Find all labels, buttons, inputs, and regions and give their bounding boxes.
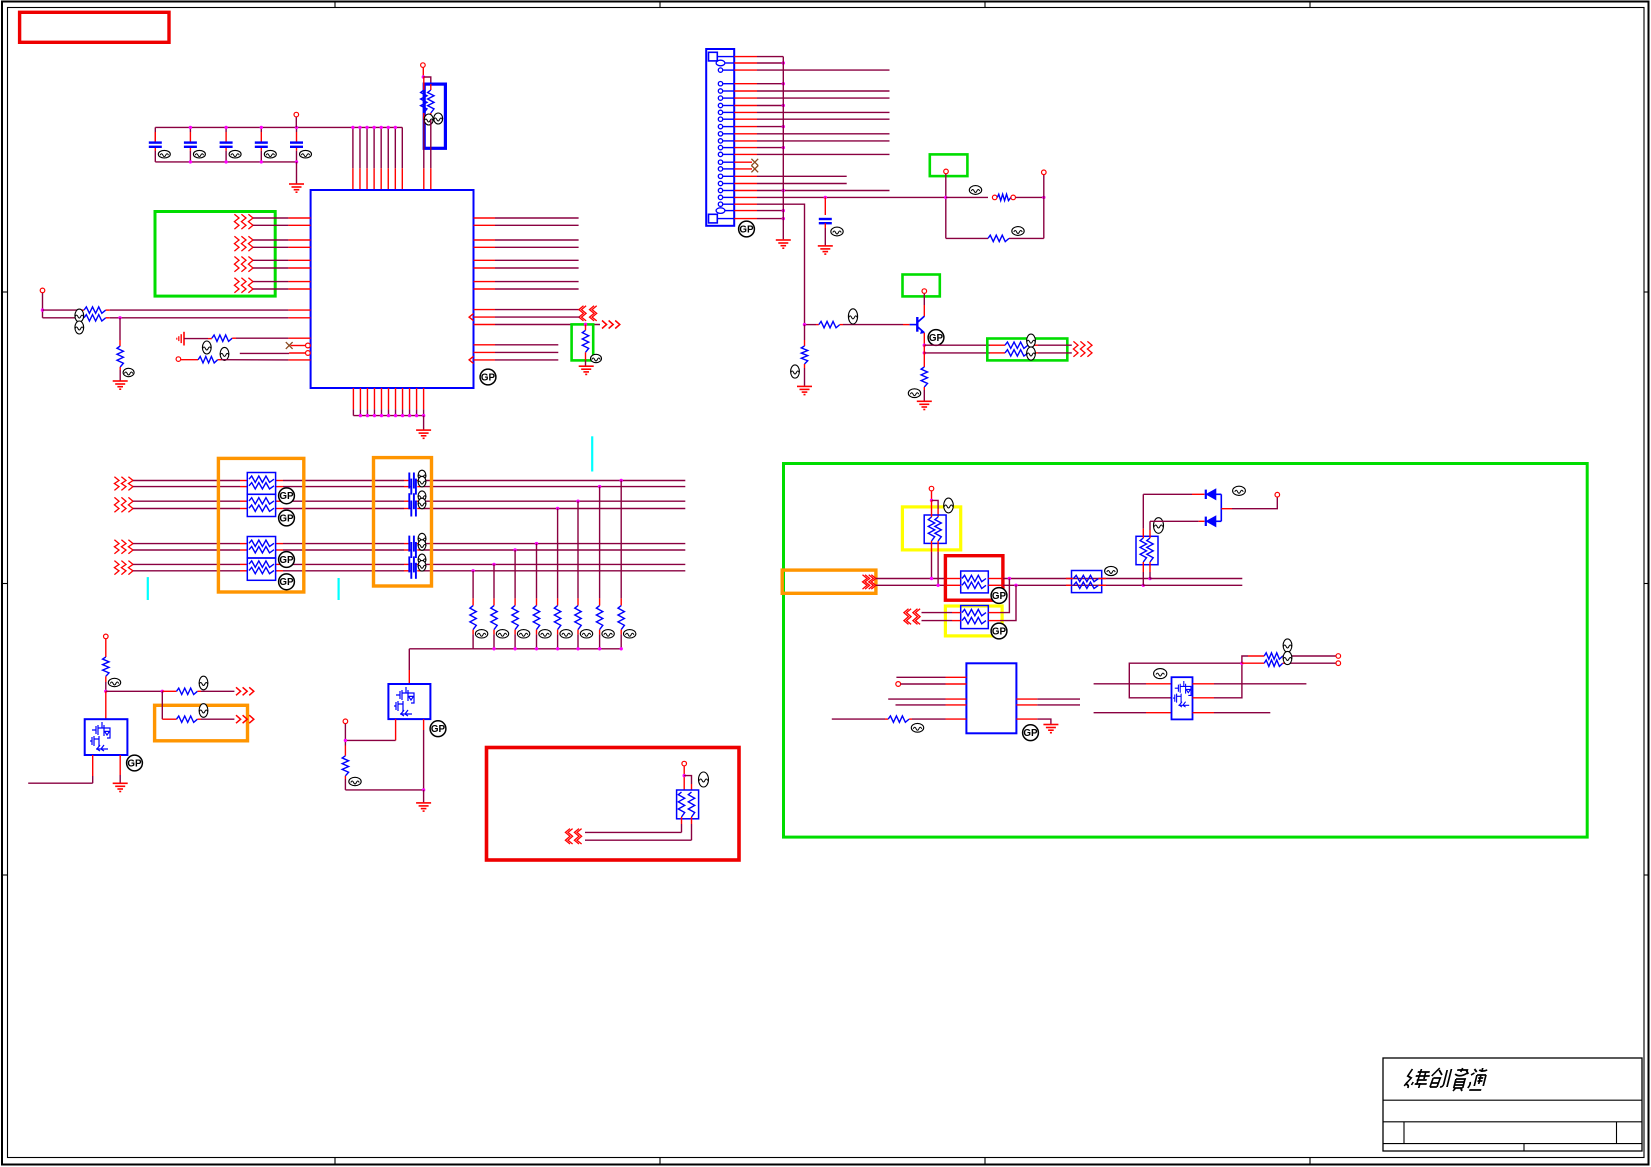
- cap bank bottom rail wire: [154, 127, 156, 142]
- capacitor CS8: [411, 563, 416, 579]
- net arrows DP pair: [582, 306, 587, 321]
- wire left input upper: [43, 309, 81, 311]
- stamp GP U2: [1023, 725, 1039, 741]
- ground G2: [585, 360, 587, 365]
- wire left input lower: [43, 317, 81, 319]
- resistor ladder R8: [472, 571, 474, 599]
- zone tick top 3: [984, 2, 986, 8]
- U1 right bus wires upper: [474, 217, 496, 219]
- junction dot Y1: [930, 499, 933, 502]
- power callout yellow box Y1: [902, 507, 960, 550]
- wire RP9a to net1: [988, 612, 1000, 614]
- offpage arrows Q1a: [236, 687, 241, 695]
- bus input net symbols pair4: [114, 561, 119, 575]
- wire U2 pin L4: [946, 704, 967, 706]
- connector J1 pin 9: [718, 117, 722, 121]
- power callout green box G3: [930, 154, 968, 176]
- net symbols group 1 in G1: [234, 214, 239, 229]
- IC U2: [966, 663, 1016, 733]
- resistor R-G2: [585, 325, 587, 331]
- resistor R-Q3a: [990, 344, 1005, 346]
- connector J1 pin 16: [718, 167, 722, 171]
- capacitor CS5: [409, 536, 414, 552]
- connector J1 pin 15: [718, 160, 722, 164]
- riser B wire: [1149, 521, 1151, 530]
- connector J1 pin 3: [718, 68, 722, 72]
- capacitor CS6: [411, 542, 416, 558]
- offpage callout orange box O3: [155, 705, 248, 741]
- junction dot pulldown left: [118, 316, 121, 319]
- zone tick left 2: [2, 583, 8, 585]
- svg-text:GP: GP: [481, 372, 496, 383]
- junction dot RP1: [422, 75, 425, 78]
- stamp GP RP2: [279, 488, 295, 504]
- resistor RP9b: [962, 617, 986, 623]
- label CS5: [418, 533, 426, 544]
- stamp GP Q3: [928, 330, 944, 346]
- power terminal G3: [944, 169, 949, 174]
- wire net2 tail: [1143, 584, 1242, 586]
- terminal R-J9b: [1336, 661, 1341, 666]
- resistor ladder R7: [493, 564, 495, 598]
- wire RP9b to net2: [988, 620, 1000, 622]
- resistor R-Q1a: [162, 690, 176, 692]
- resistor R-Q3b: [990, 352, 1005, 354]
- wire diode cathode bus: [1220, 494, 1222, 521]
- label CS8: [418, 561, 426, 572]
- wire U1 pin out with offpage: [474, 324, 496, 326]
- junction dot Q3 e2: [923, 351, 926, 354]
- ground U1 bottom: [423, 416, 425, 430]
- resistor RP10a: [1072, 578, 1074, 580]
- junction dot Q1 node: [104, 690, 107, 693]
- wire U2 pin R1: [1016, 698, 1037, 700]
- ground Q3: [917, 401, 932, 409]
- junction dot RP7b: [936, 584, 939, 587]
- junction dot ladder 2: [598, 485, 601, 488]
- resistor RP8b on net2: [945, 584, 960, 586]
- resistor R-J9a: [1242, 656, 1248, 663]
- resistor ladder R1: [620, 481, 622, 599]
- cyan marker 1: [591, 436, 593, 471]
- capacitor C2: [189, 127, 191, 132]
- transistor Q3 npn: [917, 316, 924, 334]
- junction dot RB2: [683, 774, 686, 777]
- stamp GP Q1: [127, 755, 143, 771]
- resistor pack RP5: [247, 558, 275, 580]
- capacitor C1: [154, 132, 156, 142]
- label ladder R7: [496, 630, 508, 638]
- resistor pack RP1 box: [424, 84, 445, 148]
- resistor RP1b: [430, 84, 432, 90]
- ground rail wire U1 bottom: [353, 415, 423, 417]
- label R-Q3base: [848, 309, 857, 324]
- stamp GP U1: [480, 369, 496, 385]
- wire J9 pin L1: [1094, 683, 1146, 685]
- connector J1 bus wire: [782, 57, 784, 240]
- label R-U2: [911, 723, 923, 732]
- label CS2: [418, 476, 426, 487]
- svg-text:GP: GP: [992, 626, 1007, 637]
- label R-Q3pulldown: [908, 389, 920, 398]
- wire Q1 drain lead: [119, 755, 121, 775]
- terminal diode out: [1275, 492, 1280, 497]
- zone tick top 2: [659, 2, 661, 8]
- wire rail to Q2: [408, 649, 410, 670]
- connector J1 pin 12: [718, 139, 722, 143]
- ground C-J1: [818, 246, 833, 254]
- ground J1 bus: [776, 240, 791, 248]
- junction dot Q3 e1: [923, 344, 926, 347]
- zone tick left 1: [2, 291, 8, 293]
- junction dot Q3 base net: [803, 323, 806, 326]
- resistor ladder R3: [577, 501, 579, 598]
- junction dot G3: [944, 196, 947, 199]
- capacitor C4: [260, 127, 262, 132]
- zone tick top 1: [334, 2, 336, 8]
- resistor R-Q3pulldown: [923, 353, 925, 367]
- wire net2 from O4: [876, 584, 946, 586]
- junction dot riserA: [1148, 577, 1151, 580]
- junction dot pulldown: [584, 323, 587, 326]
- resistor R-L3 to ground: [119, 318, 121, 340]
- function callout big green box G6: [784, 464, 1588, 838]
- label R-Q3net: [791, 365, 800, 378]
- wire Q3 out2: [923, 345, 925, 353]
- ground Q2: [423, 790, 425, 803]
- power flag symbol: [177, 332, 184, 346]
- connector J9 body: [1172, 677, 1193, 719]
- capacitor C-J1: [824, 197, 826, 215]
- capacitor CS2: [411, 479, 416, 495]
- label ladder R2: [602, 630, 614, 638]
- resistor pack RP9 box: [961, 606, 989, 629]
- terminal loop right: [1043, 175, 1045, 197]
- resistor R-Q3net pulldown: [804, 325, 806, 340]
- resistor ladder R5: [536, 544, 538, 599]
- power terminal Q1: [104, 634, 109, 639]
- resistor pack RP7 box: [924, 515, 946, 543]
- revision callout red box: [20, 12, 169, 42]
- wire Q1 source lead: [92, 755, 94, 776]
- connector J1 pin 6: [718, 96, 722, 100]
- terminal R-J9a: [1336, 654, 1341, 659]
- label D1: [1233, 486, 1246, 495]
- label R-L3: [123, 368, 134, 376]
- resistor R-U2 pin L5: [832, 718, 885, 720]
- power terminal VCC cap bank: [294, 112, 299, 117]
- series caps callout orange box O2: [374, 458, 432, 586]
- wire Q1 node: [106, 690, 163, 692]
- title block row line 3: [1383, 1143, 1642, 1145]
- label Y1 pack: [944, 498, 954, 513]
- capacitor CS4: [411, 501, 416, 517]
- wire Q1 node2 down: [161, 691, 163, 719]
- connector J1 pin 10: [718, 124, 722, 128]
- connector J1 pin 5: [718, 89, 722, 93]
- resistor RP11a: [1140, 538, 1146, 562]
- label R-Q1 pullup: [108, 678, 120, 686]
- wire Q3 out1: [924, 344, 990, 346]
- wire diode1 anode: [1143, 493, 1192, 495]
- label ladder R3: [580, 630, 592, 638]
- label ladder R6: [517, 630, 529, 638]
- offpage arrows Q1b: [236, 715, 241, 723]
- transistor Q2 mosfet box: [388, 684, 430, 719]
- power terminal G4: [922, 289, 927, 294]
- label RP1a: [424, 114, 433, 125]
- resistor RP8a on net1: [945, 578, 960, 580]
- bus wires 8 lines: [133, 480, 240, 482]
- bus wires rail to U1 top: [352, 127, 354, 168]
- resistor RP11b: [1147, 538, 1153, 562]
- resistor RP9a: [962, 609, 986, 615]
- resistor pack RP8 box: [961, 571, 989, 593]
- label CS7: [418, 554, 426, 565]
- label R-G2: [591, 354, 602, 362]
- label ladder R8: [475, 630, 487, 638]
- resistor RP6b: [688, 792, 694, 817]
- capacitor C3: [225, 127, 227, 132]
- callout red box RB2: [487, 748, 740, 861]
- svg-text:GP: GP: [929, 333, 944, 344]
- net arrows O4: [863, 575, 868, 589]
- junction dots cap bank: [189, 126, 192, 129]
- zone tick right 1: [1644, 291, 1649, 293]
- wire diode out: [1221, 508, 1232, 510]
- zone tick right 3: [1644, 874, 1649, 876]
- connector J1 pin 20: [718, 195, 722, 199]
- wire U2 pin L1: [946, 676, 967, 678]
- wire net1 tail: [1150, 578, 1242, 580]
- svg-text:GP: GP: [279, 491, 294, 502]
- wire Q2 drain lead: [423, 719, 425, 730]
- bus input net symbols pair3: [114, 540, 119, 554]
- wire power flag to R-L4: [184, 338, 208, 340]
- wire diode2 anode: [1150, 520, 1199, 522]
- wire RP6b out: [691, 817, 693, 824]
- company logo text (hand-drawn CJK strokes): [1403, 1068, 1488, 1091]
- label R-Q2: [349, 777, 361, 785]
- junction dot Q1 node2: [161, 690, 164, 693]
- wire loop upper: [946, 196, 988, 198]
- IC U1: [311, 190, 474, 388]
- power callout green box G4: [903, 275, 940, 297]
- zone tick bottom 2: [659, 1158, 661, 1165]
- cyan marker 2: [147, 577, 149, 600]
- net arrows Q3 outputs: [1073, 341, 1078, 356]
- junction dots U1 bottom rail: [359, 414, 362, 417]
- bus input net symbols pair1: [114, 477, 119, 491]
- no-connect pin U1: [306, 343, 311, 348]
- stamp GP RP5: [279, 574, 295, 590]
- connector J1 pin 7: [718, 103, 722, 107]
- wire U2 pin R3 to ground: [1016, 718, 1037, 720]
- bus input net symbols pair2: [114, 497, 119, 512]
- connector J1 pin 11: [718, 132, 722, 136]
- connector J1 pin 22: [716, 208, 725, 214]
- zone tick bottom 4: [1309, 1158, 1311, 1165]
- junction dot ladder 5: [535, 542, 538, 545]
- wire Y2 net a: [922, 612, 953, 614]
- wire RP6a out: [681, 817, 683, 824]
- title block row line 1: [1383, 1099, 1642, 1101]
- riser A wire: [1142, 494, 1144, 528]
- label RP11: [1154, 518, 1164, 534]
- ladder common rail wire: [409, 648, 621, 650]
- wire U1 pin DP-: [469, 314, 473, 321]
- power terminal Y1: [929, 486, 934, 491]
- stamp GP J1: [739, 221, 755, 237]
- U1 bottom pins to ground rail: [352, 388, 354, 409]
- net arrows RB2 pair: [568, 829, 573, 844]
- wire RP1 branch: [423, 77, 431, 84]
- label ladder R1: [624, 630, 636, 638]
- net symbols group 4 in G1: [234, 278, 239, 293]
- net symbols group 2 in G1: [234, 236, 239, 251]
- power terminal RP1: [421, 63, 426, 68]
- resistor RP1a: [423, 77, 425, 90]
- wire U1 pin DP+: [474, 309, 496, 311]
- resistor RP10b: [1074, 582, 1099, 588]
- label CS4: [418, 498, 426, 509]
- junction dot RJ1 right: [1042, 196, 1045, 199]
- label R-L1: [75, 309, 84, 322]
- wire pair 1 G1 to U1: [253, 217, 288, 219]
- label R-L2: [75, 321, 84, 334]
- resistor R-Q1 pullup: [103, 657, 109, 676]
- wire J9 pin R2 riser: [1193, 697, 1215, 699]
- wire Q3 base: [805, 324, 817, 326]
- wire Q2 source left lead: [395, 719, 397, 740]
- label ladder R5: [539, 630, 551, 638]
- label CS3: [418, 491, 426, 502]
- connector J1 pin 8: [718, 110, 722, 114]
- resistor R-L2: [80, 317, 84, 319]
- junction dots after RP8: [1008, 577, 1011, 580]
- terminal U2 pin L2: [896, 682, 901, 687]
- series callout orange box O1: [218, 458, 303, 592]
- junction dot ladder 4: [556, 507, 559, 510]
- label CS1: [418, 470, 426, 481]
- label RP1b: [434, 113, 443, 124]
- wire pair 3 G1 to U1: [253, 259, 288, 261]
- ground left pulldown: [113, 381, 128, 389]
- zone tick top 4: [1309, 2, 1311, 8]
- resistor pack RP2: [247, 473, 275, 495]
- net arrows Y2 pair: [907, 609, 912, 625]
- emitter callout green box G5: [987, 339, 1067, 361]
- label R-Q1b: [199, 704, 208, 718]
- resistor R-L4: [208, 338, 212, 340]
- resistor ladder R2: [599, 487, 601, 599]
- junction dots bus rail: [351, 126, 354, 129]
- connector J1 pin 1: [709, 52, 718, 61]
- mirror callout yellow box Y2: [945, 606, 1002, 636]
- wire Y2 net b: [922, 620, 953, 622]
- wire U2 pin R2: [1016, 704, 1037, 706]
- connector J1 pin 18: [718, 181, 722, 185]
- wire Q1 gate: [105, 691, 107, 719]
- wire Q2 node to terminal: [345, 739, 395, 741]
- resistor RJ2: [988, 235, 1009, 241]
- labels R-J9: [1283, 639, 1292, 652]
- connector J1 pin 19: [718, 188, 722, 192]
- wire J9 pin L3: [1094, 712, 1146, 714]
- series-termination callout green box G1: [155, 212, 275, 297]
- junction dot Q2 ground: [422, 788, 425, 791]
- series callout red box RB3: [945, 556, 1003, 601]
- label R-L4: [202, 341, 211, 354]
- wire RB2 branch: [684, 776, 691, 784]
- net symbols group 3 in G1: [234, 257, 239, 272]
- resistor ladder R6: [514, 550, 516, 598]
- resistor ladder R4: [557, 509, 559, 599]
- junction dots ladder rail: [620, 647, 623, 650]
- svg-text:GP: GP: [1023, 728, 1038, 739]
- zone tick bottom 1: [334, 1158, 336, 1165]
- junction dot RP7a: [930, 577, 933, 580]
- junction dot ladder 1: [620, 479, 623, 482]
- label RB2 pack: [699, 772, 709, 787]
- capacitor C5: [296, 127, 298, 132]
- capacitor CS1: [409, 473, 414, 489]
- label C-J1: [831, 227, 843, 236]
- stamp GP RP9: [991, 623, 1007, 639]
- U1 right lower wires: [474, 344, 496, 346]
- junction dot ladder 6: [513, 548, 516, 551]
- label RJ2: [1012, 227, 1024, 236]
- junction dot riserB: [1142, 584, 1145, 587]
- label RJ1: [969, 186, 981, 195]
- junction dot ladder 7: [492, 563, 495, 566]
- wire pair 4 G1 to U1: [253, 281, 288, 283]
- connector J1 pin 14: [718, 152, 722, 156]
- resistor pack RP4: [247, 537, 275, 559]
- resistor R-L5: [198, 357, 218, 363]
- ground U2: [1043, 725, 1058, 733]
- terminal Q2 left: [343, 719, 348, 724]
- resistor pack RP6 box: [677, 790, 699, 819]
- resistor pack RP10 box series: [1072, 571, 1102, 593]
- stubs RP10: [1066, 578, 1072, 580]
- ground cap bank: [296, 162, 298, 184]
- svg-text:GP: GP: [279, 555, 294, 566]
- wire net1 from O4: [876, 578, 946, 580]
- title block cell divider a: [1403, 1122, 1405, 1144]
- svg-text:GP: GP: [992, 591, 1007, 602]
- connector J1 pin 4: [718, 82, 722, 86]
- resistor R-J9b: [1242, 662, 1264, 664]
- transistor Q1 mosfet box: [85, 719, 128, 755]
- wire J9 pin R3: [1193, 712, 1215, 714]
- stamp GP Q2: [430, 721, 446, 737]
- connector J1 pin 13: [718, 145, 722, 149]
- stamp GP RP8: [991, 588, 1007, 604]
- label ladder R4: [560, 630, 572, 638]
- cap bank top rail wire: [155, 126, 402, 128]
- pulldown callout green box G2: [572, 324, 594, 360]
- jumper resistor RJ1: [992, 195, 997, 200]
- resistor R-L1: [80, 309, 84, 311]
- resistor pack RP3: [247, 494, 275, 516]
- title block row line 2: [1383, 1121, 1642, 1123]
- title block cell divider c: [1523, 1144, 1525, 1151]
- ground Q3 base net: [797, 386, 812, 394]
- connector J1 pin 2: [716, 60, 725, 66]
- terminal R-L5 input: [176, 357, 181, 362]
- label R-Q1a: [199, 676, 208, 690]
